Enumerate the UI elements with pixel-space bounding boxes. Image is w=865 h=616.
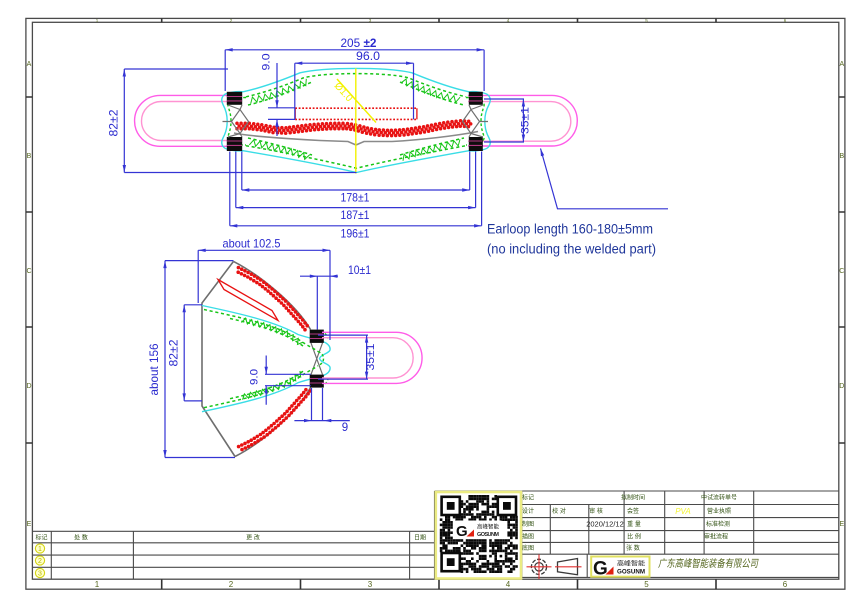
- right ear loop outer: [468, 95, 577, 146]
- svg-text:E: E: [27, 521, 32, 528]
- folded loop stubs: [310, 334, 323, 383]
- svg-text:A: A: [839, 61, 844, 68]
- svg-text:(no including the welded part): (no including the welded part): [487, 242, 656, 257]
- stitch dashed line bottom outer: [246, 146, 466, 169]
- revision table header text: [35, 534, 426, 542]
- svg-text:高峰智能: 高峰智能: [477, 523, 499, 531]
- svg-text:178±1: 178±1: [341, 191, 370, 205]
- revision table: [32, 491, 434, 579]
- svg-text:重 量: 重 量: [627, 520, 641, 528]
- svg-text:Earloop length 160-180±5mm: Earloop length 160-180±5mm: [487, 222, 653, 237]
- svg-text:比 例: 比 例: [627, 532, 641, 540]
- folded tip X fold: [311, 343, 323, 375]
- svg-text:审批流程: 审批流程: [704, 532, 728, 540]
- stitch dash wrap left tip: [228, 98, 246, 146]
- zigzag stitch top left: [251, 79, 307, 104]
- svg-text:about 102.5: about 102.5: [223, 236, 281, 250]
- stitch dashed line bottom inner right: [400, 138, 464, 155]
- svg-text:2: 2: [229, 580, 234, 589]
- svg-text:设计: 设计: [522, 507, 534, 515]
- left ear loop outer: [135, 95, 238, 146]
- revision circled numbers: [35, 544, 44, 553]
- svg-text:3: 3: [38, 571, 42, 578]
- folded weld squares: [310, 330, 324, 388]
- right tip diamond: [463, 105, 489, 137]
- dimension about 156: [165, 261, 235, 458]
- svg-text:底图: 底图: [522, 544, 534, 552]
- mask body outline (top view): [222, 68, 490, 172]
- dimension 96.0: [295, 63, 414, 119]
- svg-text:G: G: [456, 523, 468, 540]
- dimension about 102.5: [198, 250, 330, 340]
- svg-text:C: C: [26, 268, 31, 275]
- svg-text:拟制时间: 拟制时间: [621, 494, 645, 502]
- svg-text:GOSUNM: GOSUNM: [477, 532, 499, 538]
- folded stitch dashed top: [204, 310, 318, 408]
- title block grid: [435, 491, 839, 577]
- stitch dashed line top outer: [246, 74, 466, 97]
- zigzag stitch top right: [401, 79, 460, 102]
- svg-text:C: C: [839, 268, 844, 275]
- svg-text:35±1: 35±1: [520, 107, 532, 134]
- svg-text:GOSUNM: GOSUNM: [617, 570, 645, 576]
- svg-text:校 对: 校 对: [552, 507, 566, 515]
- folded red dots bottom edge: [237, 388, 312, 452]
- dimension 9.0 folded: [265, 356, 311, 405]
- svg-text:制图: 制图: [522, 520, 534, 528]
- dimension 82±2 folded: [184, 305, 202, 401]
- folded zigzag top: [241, 318, 303, 344]
- svg-text:about 156: about 156: [147, 343, 161, 395]
- weld squares left: [227, 92, 242, 151]
- svg-text:187±1: 187±1: [341, 208, 370, 222]
- folded ear loop outer: [322, 332, 422, 383]
- folded inner edge cyan top: [202, 306, 330, 412]
- svg-text:9.0: 9.0: [261, 54, 273, 71]
- svg-text:D: D: [839, 383, 844, 390]
- svg-text:9: 9: [342, 422, 348, 434]
- nose wire rectangle: [295, 108, 417, 119]
- svg-text:D: D: [26, 383, 31, 390]
- dimension 178±1: [242, 152, 470, 191]
- svg-text:3: 3: [368, 580, 373, 589]
- svg-text:标记: 标记: [35, 534, 47, 542]
- svg-text:营业执照: 营业执照: [707, 507, 731, 515]
- svg-text:更 改: 更 改: [246, 534, 260, 542]
- projection symbol cone: [555, 559, 582, 575]
- svg-text:2020/12/12: 2020/12/12: [586, 520, 624, 529]
- folded red dots top edge: [236, 266, 309, 332]
- svg-text:B: B: [27, 153, 32, 160]
- zigzag stitch bottom right: [403, 139, 460, 160]
- svg-text:205 ±2: 205 ±2: [341, 36, 377, 50]
- weld squares right: [469, 92, 483, 151]
- stitch dashed line top inner right: [400, 82, 464, 105]
- left tip diamond: [223, 105, 249, 137]
- svg-text:中试流转单号: 中试流转单号: [701, 494, 737, 502]
- yellow centerline: [355, 68, 357, 173]
- dimension 82±2 (mask height): [124, 69, 356, 173]
- svg-text:1: 1: [38, 546, 42, 553]
- folded zigzag bottom: [243, 371, 301, 400]
- folded stitch dash square wraps: [316, 331, 328, 387]
- dimension 196±1: [230, 152, 482, 226]
- svg-text:196±1: 196±1: [341, 227, 370, 241]
- QR code block: [436, 492, 521, 579]
- stitch dash wrap right tip: [466, 98, 484, 146]
- svg-text:96.0: 96.0: [356, 49, 380, 63]
- dimension 10±1: [300, 276, 338, 329]
- svg-text:标记: 标记: [522, 494, 534, 502]
- svg-text:审 核: 审 核: [589, 507, 603, 515]
- dimension 9 folded bottom: [294, 388, 349, 421]
- svg-text:82±2: 82±2: [167, 339, 181, 366]
- fold line: [234, 132, 478, 146]
- svg-text:2: 2: [38, 558, 42, 565]
- dimension 9.0 (nose strip height): [268, 63, 295, 136]
- folded stitch dashed top second: [230, 319, 303, 399]
- svg-text:6: 6: [783, 580, 788, 589]
- svg-text:A: A: [27, 61, 32, 68]
- svg-text:标准检测: 标准检测: [706, 520, 730, 528]
- svg-text:1: 1: [95, 580, 100, 589]
- dimension 187±1: [236, 152, 476, 208]
- yellow diagonal pointer: [337, 79, 376, 123]
- stitch dashed line bottom inner left: [248, 138, 312, 155]
- svg-text:10±1: 10±1: [348, 265, 371, 277]
- svg-text:E: E: [839, 521, 844, 528]
- loop stubs over squares: [227, 97, 242, 146]
- svg-text:广东高峰智能装备有限公司: 广东高峰智能装备有限公司: [658, 558, 759, 570]
- svg-text:G: G: [593, 559, 608, 580]
- svg-text:会签: 会签: [627, 507, 639, 515]
- folded nose wire parallelogram: [218, 280, 278, 321]
- right ear loop inner: [468, 102, 571, 142]
- stitch dashed line top inner left: [248, 82, 312, 105]
- svg-text:日期: 日期: [414, 534, 426, 542]
- svg-text:高峰智能: 高峰智能: [617, 560, 645, 568]
- svg-text:描图: 描图: [522, 532, 534, 540]
- dimension 35±1 folded: [318, 335, 368, 379]
- dimension 35±1 (right loop): [484, 99, 524, 142]
- svg-text:张 数: 张 数: [626, 544, 640, 552]
- dimension 205±2: [225, 50, 484, 91]
- projection symbol crosshair: [527, 555, 552, 580]
- svg-text:4: 4: [506, 580, 511, 589]
- company logo box: [591, 557, 649, 577]
- left ear loop inner: [142, 102, 239, 141]
- zigzag stitch bottom left: [249, 140, 309, 160]
- svg-text:9.0: 9.0: [249, 369, 261, 385]
- title block small green texts: [522, 494, 737, 553]
- svg-text:PVA: PVA: [675, 507, 691, 516]
- earloop leader line: [541, 149, 669, 209]
- red dot weld band: [235, 119, 472, 137]
- folded stitch dash waist wrap: [318, 352, 324, 366]
- svg-text:5: 5: [644, 580, 649, 589]
- svg-text:B: B: [839, 153, 844, 160]
- svg-text:82±2: 82±2: [107, 109, 121, 136]
- folded ear loop inner: [322, 338, 413, 378]
- folded mask outline: [202, 261, 311, 456]
- svg-text:处 数: 处 数: [74, 534, 88, 542]
- svg-text:35±1: 35±1: [365, 344, 377, 371]
